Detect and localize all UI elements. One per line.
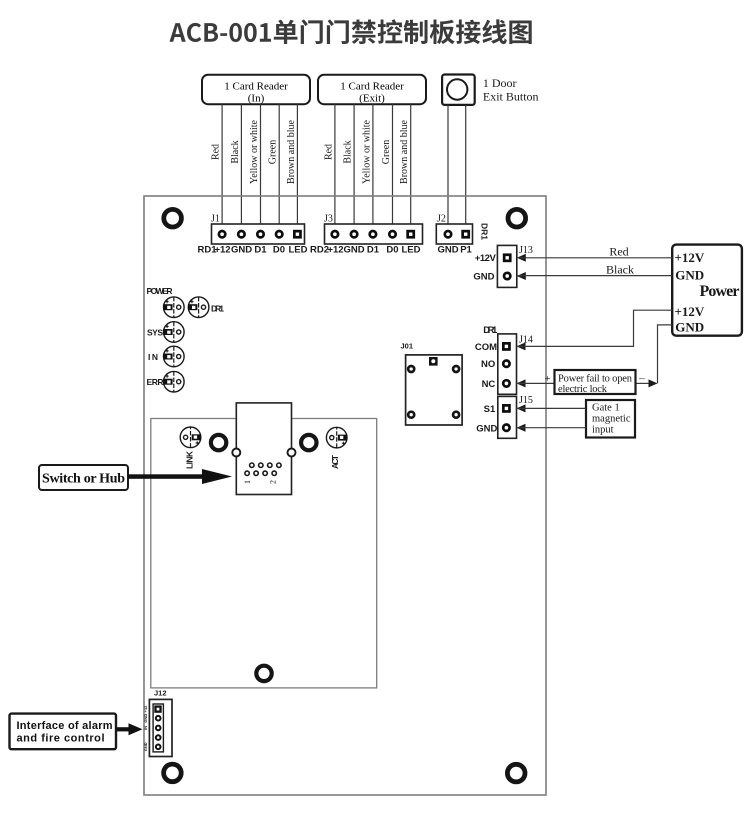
arrow into J15 GND	[517, 424, 526, 432]
svg-text:Black: Black	[606, 262, 634, 276]
svg-text:+12: +12	[214, 244, 230, 255]
svg-text:SYS: SYS	[147, 327, 163, 337]
J12 tiny pin labels	[143, 705, 148, 751]
svg-text:1 Card Reader: 1 Card Reader	[224, 81, 288, 93]
svg-text:and fire control: and fire control	[17, 733, 105, 745]
svg-text:electric lock: electric lock	[558, 384, 608, 395]
mounting hole bottom-right	[507, 764, 525, 782]
svg-text:Yellow or white: Yellow or white	[249, 119, 260, 184]
svg-text:D0: D0	[386, 244, 398, 255]
svg-text:D1: D1	[254, 244, 267, 255]
arrow into J14 NC	[517, 379, 526, 387]
svg-text:GND: GND	[675, 268, 704, 283]
arrow interface to J12	[116, 723, 143, 735]
mounting hole bottom-left	[164, 764, 182, 782]
door exit button	[442, 75, 475, 105]
svg-text:+12V: +12V	[675, 250, 705, 265]
wire Brown and blue (In reader pin 5)	[296, 104, 298, 224]
via right of RJ45	[301, 435, 316, 450]
svg-text:GND: GND	[675, 320, 704, 335]
interface of alarm and fire control box	[10, 714, 117, 750]
wire Yellow or white (In reader pin 3)	[260, 104, 262, 224]
POWER LED	[163, 297, 184, 318]
card reader (In) box	[202, 75, 310, 105]
svg-text:J13: J13	[519, 245, 533, 256]
wire Red (Exit reader pin 1)	[334, 104, 336, 224]
connector J1	[212, 224, 305, 244]
svg-text:Brown and blue: Brown and blue	[399, 120, 410, 184]
arrow switch to RJ45	[128, 469, 232, 484]
gate 1 magnetic input box	[586, 400, 635, 438]
svg-text:+12V: +12V	[475, 253, 497, 264]
J13 pin labels	[473, 253, 496, 283]
svg-text:(Exit): (Exit)	[359, 93, 385, 105]
svg-text:J14: J14	[519, 335, 533, 346]
svg-text:J2: J2	[437, 214, 446, 225]
wire Power GND down	[658, 325, 673, 384]
J2 pin labels GND P1	[437, 244, 472, 255]
RJ45 ethernet jack J02	[232, 403, 295, 495]
wire Power +12V to J14 COM	[517, 310, 673, 346]
ERR LED	[163, 371, 184, 392]
wire exit button to J2 GND	[447, 105, 449, 224]
svg-text:GND: GND	[143, 742, 148, 751]
svg-text:POWER: POWER	[147, 286, 173, 296]
svg-text:J01: J01	[401, 342, 414, 351]
svg-text:LINK: LINK	[185, 450, 195, 469]
svg-text:input: input	[592, 425, 614, 436]
IN LED	[163, 346, 184, 367]
label 1 Door Exit Button	[483, 76, 539, 104]
svg-text:Green: Green	[268, 140, 279, 164]
svg-text:(In): (In)	[248, 93, 265, 105]
svg-text:Gate 1: Gate 1	[592, 403, 620, 414]
connector J15	[498, 396, 517, 438]
svg-text:+: +	[544, 373, 550, 385]
svg-text:Green: Green	[381, 140, 392, 164]
svg-text:J12: J12	[154, 689, 167, 698]
svg-text:GND: GND	[476, 423, 497, 434]
wire gate box to J15 GND	[517, 427, 586, 429]
svg-text:1: 1	[243, 480, 252, 484]
svg-text:–: –	[638, 373, 645, 385]
svg-text:GND: GND	[437, 244, 458, 255]
arrow into J15 S1	[517, 404, 526, 412]
svg-text:1 Card Reader: 1 Card Reader	[340, 81, 404, 93]
wire Black (In reader pin 2)	[240, 104, 242, 224]
svg-text:Yellow or white: Yellow or white	[361, 119, 372, 184]
svg-text:Brown and blue: Brown and blue	[286, 120, 297, 184]
LED labels POWER DR1 SYS IN ERR	[147, 286, 225, 387]
wire Black (Exit reader pin 2)	[353, 104, 355, 224]
svg-text:NO: NO	[481, 359, 495, 370]
svg-text:IN: IN	[148, 352, 158, 362]
svg-text:Exit Button: Exit Button	[483, 90, 539, 104]
wire Green (In reader pin 4)	[278, 104, 280, 224]
arrow into J13 +12V	[517, 254, 526, 262]
svg-text:DR1: DR1	[211, 304, 224, 314]
lock box minus wire with arrow	[636, 382, 650, 384]
mounting hole top-right	[508, 209, 526, 227]
svg-text:Power fail to open: Power fail to open	[558, 374, 633, 385]
wire Red J13 +12V to Power	[517, 257, 672, 259]
svg-text:P1: P1	[460, 244, 472, 255]
svg-text:GND: GND	[343, 244, 364, 255]
switch or hub box	[39, 465, 128, 490]
J14 pin labels COM NO NC	[475, 342, 497, 390]
inner board region outline	[151, 419, 377, 688]
connector J14	[498, 334, 517, 394]
mounting hole top-left	[164, 209, 182, 227]
relay J01 body	[406, 355, 463, 425]
wire J14 NC to lock box	[517, 382, 555, 384]
svg-text:1 Door: 1 Door	[483, 76, 517, 90]
svg-text:S1: S1	[484, 404, 496, 415]
connector J2	[436, 224, 472, 244]
svg-text:Power: Power	[700, 283, 740, 300]
wire Red (In reader pin 1)	[221, 104, 223, 224]
svg-text:GND: GND	[473, 272, 494, 283]
svg-text:DR1: DR1	[483, 325, 498, 336]
svg-text:Black: Black	[343, 140, 354, 163]
RJ45 pin1 pin2 rotated digits	[243, 480, 278, 484]
svg-text:DR1: DR1	[480, 223, 490, 240]
svg-text:Interface of alarm: Interface of alarm	[17, 720, 113, 732]
svg-text:magnetic: magnetic	[592, 414, 631, 425]
wire exit button to J2 P1	[465, 105, 467, 224]
wire gate box to J15 S1	[517, 407, 586, 409]
connector J13	[497, 245, 516, 287]
svg-text:J15: J15	[519, 395, 533, 406]
svg-text:NC: NC	[482, 379, 496, 390]
connector J12	[149, 699, 172, 756]
mounting hole bottom of inner region	[256, 666, 271, 681]
J15 pin labels S1 GND	[476, 404, 497, 435]
svg-text:J3: J3	[324, 214, 333, 225]
wire Yellow or white (Exit reader pin 3)	[372, 104, 374, 224]
svg-text:2: 2	[269, 480, 278, 484]
svg-text:ACT: ACT	[330, 454, 340, 469]
wire Green (Exit reader pin 4)	[392, 104, 394, 224]
svg-text:J1: J1	[211, 214, 220, 225]
LINK LED	[180, 427, 201, 448]
svg-text:LED: LED	[402, 244, 421, 255]
ACT LED	[326, 427, 347, 448]
wire Brown and blue (Exit reader pin 5)	[410, 104, 412, 224]
connector J3	[325, 224, 423, 244]
svg-text:+12: +12	[327, 244, 343, 255]
via left of RJ45	[211, 435, 226, 450]
svg-text:+12: +12	[143, 705, 148, 713]
svg-text:COM: COM	[475, 342, 497, 353]
svg-text:Switch or Hub: Switch or Hub	[42, 472, 125, 487]
card reader (Exit) box	[318, 75, 426, 105]
svg-text:LED: LED	[289, 244, 308, 255]
svg-text:D0: D0	[273, 244, 285, 255]
title text: ACB-001单门门禁控制板接线图	[170, 19, 532, 44]
svg-text:ERR: ERR	[147, 377, 164, 387]
svg-text:Black: Black	[230, 140, 241, 163]
DR1 LED	[188, 297, 209, 318]
power fail to open electric lock box	[555, 370, 636, 395]
wire Black J13 GND to Power	[517, 275, 672, 277]
J3 pin labels RD2 +12 GND D1 D0 LED	[310, 244, 421, 255]
J1 pin labels RD1 +12 GND D1 D0 LED	[198, 244, 308, 255]
svg-text:Red: Red	[211, 144, 222, 160]
svg-text:D1: D1	[367, 244, 380, 255]
svg-text:Red: Red	[609, 245, 628, 259]
power supply box	[672, 245, 742, 336]
svg-text:Red: Red	[323, 144, 334, 160]
arrow into J13 GND	[517, 272, 526, 280]
SYS LED	[163, 322, 184, 343]
svg-text:RD2: RD2	[310, 244, 329, 255]
svg-text:GND: GND	[231, 244, 252, 255]
arrow into J14 COM	[517, 342, 526, 350]
svg-text:IN: IN	[143, 726, 148, 730]
PCB board outline	[144, 196, 546, 795]
svg-text:+12V: +12V	[675, 304, 705, 319]
svg-text:GND: GND	[143, 714, 148, 723]
